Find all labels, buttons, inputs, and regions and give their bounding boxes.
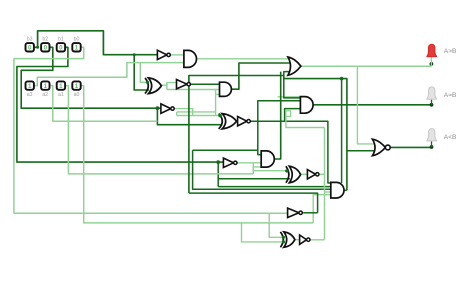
inverter NOT4 bbox=[238, 117, 247, 126]
wire pale riser x326 bbox=[324, 128, 326, 240]
wire A=B LED stub bbox=[431, 100, 433, 105]
input pin b0 value 1 bbox=[72, 43, 80, 51]
wire b3 net (dark, logic 0) bbox=[34, 31, 157, 55]
wire XNOR4 out stub bbox=[295, 239, 300, 241]
junction dot XNOR4.a bbox=[282, 236, 285, 239]
LED A<B (off) bbox=[427, 129, 437, 141]
junction dot XOR2.a bbox=[218, 114, 221, 117]
inverter NOT5 (b1) bbox=[223, 158, 233, 167]
xor-gate XOR3 bbox=[289, 166, 300, 183]
wire stub into AND2.in3 bbox=[216, 93, 220, 95]
wire OR1 out to A>B (pale) bbox=[301, 65, 432, 67]
wire a1 net (pale) bbox=[65, 86, 253, 174]
and-gate AND3 (A equal) bbox=[300, 97, 313, 114]
svg-text:A>B: A>B bbox=[444, 48, 457, 55]
wire NOR2 out to A<B (dark) bbox=[389, 146, 432, 148]
wire NOT5 out to AND4.in2 (pale) bbox=[237, 162, 261, 164]
wire NOR2.in2 feed (dark) bbox=[347, 150, 377, 152]
wire b0 net (pale, logic 1) bbox=[14, 47, 288, 213]
svg-text:b1: b1 bbox=[58, 37, 64, 43]
wire a3 net (pale) bbox=[34, 63, 184, 86]
wire a1 jog to AND4.in3 bbox=[253, 167, 261, 174]
wire AND5 out stub bbox=[344, 189, 347, 191]
input pin a1 value 1 bbox=[57, 81, 65, 89]
inverter NOT3 (b2) bbox=[161, 104, 171, 113]
junction b2 branch at x157 bbox=[156, 106, 160, 110]
inverter NOT1 (b3) bbox=[157, 50, 167, 59]
inverter NOT2 bbox=[177, 80, 188, 89]
wire a0 net (pale) bbox=[81, 86, 314, 223]
and-gate AND4 bbox=[261, 151, 274, 167]
svg-text:A=B: A=B bbox=[444, 92, 457, 99]
svg-text:1: 1 bbox=[75, 45, 79, 52]
svg-text:b3: b3 bbox=[27, 37, 33, 43]
svg-text:b2: b2 bbox=[42, 37, 48, 43]
and-gate AND2 (3-input) bbox=[220, 82, 232, 96]
junction A>B terminal dot bbox=[430, 62, 434, 66]
wire a0 branch to XNOR4.b bbox=[242, 223, 285, 242]
wire AND3.in1 pale feed bbox=[278, 96, 301, 98]
xor-gate XOR1 bbox=[148, 78, 161, 94]
wire net-X: AND4.in1 riser (dark) bbox=[258, 101, 301, 155]
junction dot on NOT2-net bbox=[340, 77, 344, 81]
xnor-gate XNOR4 bbox=[284, 232, 295, 247]
and-gate AND5 (5-input) bbox=[331, 182, 344, 198]
svg-text:1: 1 bbox=[59, 83, 63, 90]
svg-text:a1: a1 bbox=[58, 92, 64, 98]
wire b1 branch to AND5.in2 bbox=[218, 186, 331, 188]
wire A<B LED stub bbox=[431, 141, 433, 147]
svg-text:0: 0 bbox=[59, 45, 63, 52]
wire XOR1 out branch down bbox=[166, 83, 168, 90]
wire a2 net (pale) bbox=[49, 86, 157, 122]
node pale box bbox=[286, 111, 291, 117]
svg-text:b0: b0 bbox=[74, 37, 80, 43]
inverter NOT8 bbox=[300, 235, 307, 244]
svg-text:a0: a0 bbox=[74, 92, 80, 98]
junction dot XNOR4.b bbox=[282, 240, 285, 243]
svg-text:a3: a3 bbox=[27, 92, 33, 98]
svg-text:1: 1 bbox=[75, 83, 79, 90]
wire AND3.in2 feed (dark) bbox=[284, 76, 301, 98]
LED A=B (off) bbox=[427, 87, 437, 99]
wire pale link y112 bbox=[176, 112, 178, 116]
xor-gate XOR2 bbox=[222, 114, 237, 129]
input pin b2 value 0 bbox=[41, 43, 49, 51]
nor-gate NOR2 (A less) bbox=[372, 139, 385, 156]
junction b1 branch bbox=[216, 160, 220, 164]
wire NOT3 out jog (pale) bbox=[174, 109, 192, 116]
wire AND3 out to A=B (dark) bbox=[313, 104, 431, 106]
wire pale riser top hook bbox=[286, 116, 325, 127]
inverter NOT7 (b0) bbox=[288, 208, 299, 217]
svg-text:1: 1 bbox=[44, 83, 48, 90]
junction dot XOR1.a bbox=[146, 81, 149, 84]
wire b0 branch to XNOR4.a bbox=[269, 213, 285, 237]
svg-text:A<B: A<B bbox=[444, 134, 457, 141]
svg-text:1: 1 bbox=[28, 83, 32, 90]
junction NOT2 net bbox=[187, 83, 190, 86]
wire a3 branch to XOR1.a bbox=[140, 63, 148, 83]
wire a1 branch to XOR3.a bbox=[253, 170, 288, 172]
svg-text:0: 0 bbox=[28, 45, 32, 52]
wire NOT2 out to NAND2.a (dark) bbox=[190, 83, 219, 85]
wire NOT4 out to AND3.in4 bbox=[285, 109, 301, 122]
wire net-X horizontal into AND4 riser bbox=[193, 149, 258, 151]
input pin b1 value 0 bbox=[57, 43, 65, 51]
wire NOT4.out extension to AND5.in1 riser (dark) bbox=[285, 121, 332, 183]
wire NAND2 out (dark) bbox=[231, 63, 292, 89]
input pin a2 value 1 bbox=[41, 81, 49, 89]
junction b3 branch bbox=[36, 46, 39, 49]
wire AND4 out riser to OR1.in3 (dark) bbox=[274, 72, 280, 159]
wire b2 net (dark) bbox=[21, 47, 161, 108]
wire A>B branch down to NOR2.in1 (pale) bbox=[357, 66, 376, 144]
wire OR1.in3 stub bbox=[284, 72, 292, 76]
wire NOT1 out to AND1.a (pale) bbox=[170, 54, 184, 56]
wire a0 riser to AND5.in5 bbox=[313, 195, 331, 223]
input pin a0 value 1 bbox=[72, 81, 80, 89]
wire NOT7 out (dark) bbox=[303, 212, 318, 214]
junction A=B terminal dot bbox=[430, 103, 434, 107]
wire b2 branch to XOR2.b bbox=[157, 108, 222, 125]
wire NOT4 out (dark) bbox=[250, 120, 284, 122]
wire XOR3 out to NOT6 (pale) bbox=[301, 173, 308, 175]
inverter NOT6 bbox=[307, 170, 315, 179]
svg-text:a2: a2 bbox=[42, 92, 48, 98]
wire AND5.in4 stub (pale) bbox=[325, 191, 331, 193]
wire net-X down-leg to AND5.in3 bbox=[193, 150, 331, 189]
junction A<B terminal dot bbox=[430, 145, 434, 149]
wire b1 net (dark) bbox=[17, 47, 223, 162]
wire XOR1 branch to AND2.in2 bbox=[167, 89, 220, 91]
LED A>B (on, red) bbox=[427, 44, 437, 56]
wire pale link NOT5-to-XOR3 column bbox=[252, 163, 254, 174]
wire branch down at x215.6 bbox=[215, 90, 217, 116]
wire b3 branch to XOR1.b bbox=[134, 55, 149, 90]
wire NOT6 out to pale riser bbox=[320, 173, 325, 175]
wire stub down to AND5 top bbox=[341, 79, 343, 183]
wire NOT8 out to pale riser bbox=[310, 239, 325, 241]
or-gate OR1 (A greater) bbox=[288, 57, 301, 75]
and-gate AND1 bbox=[184, 50, 197, 67]
svg-text:0: 0 bbox=[44, 45, 48, 52]
junction dot XOR3.a bbox=[285, 169, 288, 172]
input pin a3 value 1 bbox=[26, 81, 34, 89]
wire NOT2 net bottom to NOT7-out rail bbox=[189, 193, 318, 213]
wire XOR1 out jog (pale) bbox=[161, 83, 176, 86]
wire AND1 out to OR1.in1 (pale) bbox=[197, 58, 292, 60]
wire b1 branch to XOR3.b bbox=[218, 178, 290, 180]
input pin b3 value 0 bbox=[26, 43, 34, 51]
wire b1 branch down bbox=[217, 162, 219, 187]
wire NOT2 net riser (dark) bbox=[189, 76, 347, 194]
wire into XOR2.a bbox=[177, 115, 222, 117]
wire A>B LED stub bbox=[430, 57, 432, 66]
